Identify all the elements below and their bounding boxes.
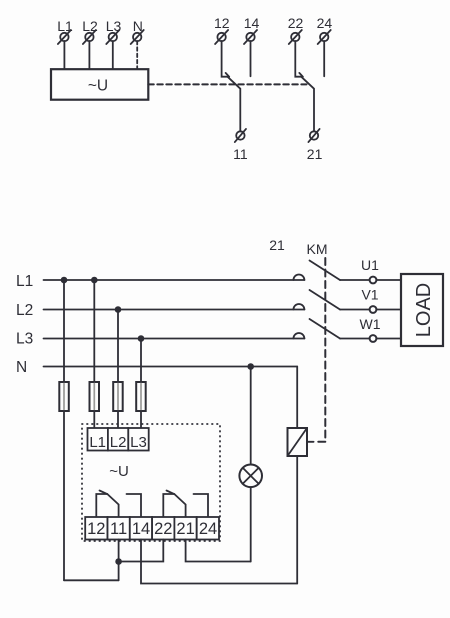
svg-text:V1: V1 [361,287,378,303]
svg-text:14: 14 [132,520,150,538]
svg-text:L3: L3 [106,18,122,34]
svg-text:22: 22 [288,15,304,31]
svg-text:L1: L1 [89,434,106,451]
svg-text:21: 21 [269,237,285,253]
svg-text:U1: U1 [361,257,379,273]
svg-text:KM: KM [307,241,328,257]
svg-text:L1: L1 [57,18,73,34]
svg-text:22: 22 [154,520,172,538]
svg-text:21: 21 [307,146,323,162]
svg-text:N: N [16,359,27,376]
svg-text:N: N [133,18,143,34]
svg-text:~U: ~U [109,463,129,480]
svg-text:L2: L2 [110,434,127,451]
svg-text:L2: L2 [16,302,33,319]
svg-text:24: 24 [199,520,217,538]
svg-text:W1: W1 [360,316,381,332]
svg-text:L2: L2 [82,18,98,34]
svg-text:11: 11 [110,520,127,538]
svg-text:11: 11 [233,146,248,162]
svg-text:14: 14 [244,15,260,31]
svg-text:L1: L1 [16,273,33,290]
svg-text:~U: ~U [88,78,108,95]
svg-text:12: 12 [214,15,230,31]
svg-text:21: 21 [176,520,194,538]
svg-text:24: 24 [317,15,333,31]
svg-text:L3: L3 [16,331,33,348]
svg-text:LOAD: LOAD [413,283,435,337]
svg-text:L3: L3 [130,434,147,451]
svg-text:12: 12 [87,520,105,538]
